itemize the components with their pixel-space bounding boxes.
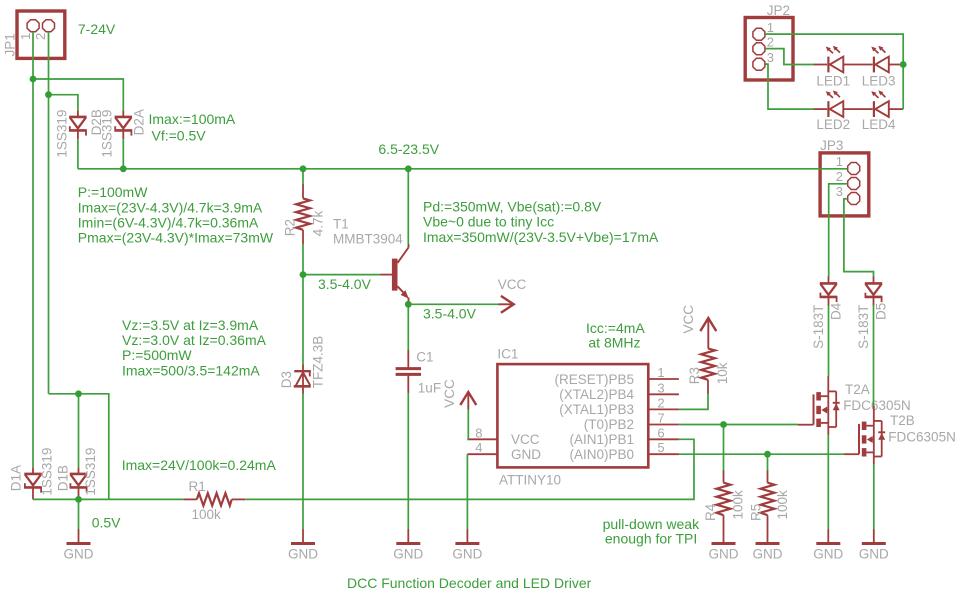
wire D1B top (78, 394, 80, 468)
svg-text:LED1: LED1 (816, 74, 850, 89)
svg-text:Vz:=3.5V at Iz=3.9mA: Vz:=3.5V at Iz=3.9mA (122, 317, 259, 333)
wire main 6.5-23.5V rail (78, 168, 847, 170)
node D2A/rail (120, 165, 127, 172)
ground (T2A) (816, 529, 840, 544)
svg-text:GND: GND (859, 547, 889, 562)
VCC arrow up (IC supply) (460, 392, 476, 410)
svg-text:MMBT3904: MMBT3904 (333, 232, 403, 247)
wire IC pin4 to GND (466, 454, 468, 529)
svg-text:GND: GND (813, 547, 843, 562)
svg-text:Pd:=350mW, Vbe(sat):=0.8V: Pd:=350mW, Vbe(sat):=0.8V (423, 199, 602, 215)
connector JP1 (17, 11, 65, 58)
svg-text:3.5-4.0V: 3.5-4.0V (318, 276, 372, 292)
resistor R1 100k (183, 493, 245, 505)
svg-text:1: 1 (657, 365, 664, 380)
IC1 pin 3 stub (648, 393, 679, 395)
IC1 pin 4 stub (467, 453, 497, 455)
wire rail to R2 (302, 169, 304, 185)
diode D4 S-183T (820, 276, 837, 306)
wire D2B bottom to rail (77, 139, 79, 169)
svg-text:(T0)PB2: (T0)PB2 (584, 417, 634, 432)
svg-text:S-183T: S-183T (811, 305, 826, 349)
svg-text:(XTAL1)PB3: (XTAL1)PB3 (559, 402, 634, 417)
svg-text:Pmax=(23V-4.3V)*Imax=73mW: Pmax=(23V-4.3V)*Imax=73mW (78, 230, 274, 246)
svg-text:R5: R5 (748, 504, 763, 521)
wire rail to T1 collector (407, 169, 409, 245)
wire R2 bottom to base node (302, 244, 304, 275)
node rail/R2 (300, 165, 307, 172)
svg-text:R1: R1 (189, 479, 206, 494)
svg-text:8: 8 (475, 425, 482, 440)
node rail/collector (405, 165, 412, 172)
node base/D3 (300, 271, 307, 278)
svg-text:Imax=500/3.5=142mA: Imax=500/3.5=142mA (122, 362, 260, 378)
LED2 (813, 90, 858, 117)
svg-text:T1: T1 (333, 216, 349, 231)
svg-text:GND: GND (452, 547, 482, 562)
IC1 pin 5 stub (648, 453, 679, 455)
node D1/GND/R1 (75, 496, 82, 503)
svg-text:FDC6305N: FDC6305N (843, 398, 911, 413)
svg-text:D1B: D1B (55, 465, 70, 491)
svg-text:3.5-4.0V: 3.5-4.0V (423, 306, 477, 322)
resistor R5 100k (761, 470, 775, 529)
JP2 pin 1 (753, 28, 765, 40)
svg-text:ATTINY10: ATTINY10 (499, 473, 561, 488)
LED3 (858, 46, 903, 73)
IC1 pin 2 stub (648, 408, 679, 410)
svg-text:GND: GND (288, 547, 318, 562)
transistor T1 MMBT3904 (380, 244, 409, 304)
svg-text:2: 2 (657, 395, 664, 410)
node JP1.1/D2A (30, 76, 37, 83)
IC1 pin 7 stub (648, 424, 679, 426)
svg-text:6: 6 (657, 425, 664, 440)
svg-text:GND: GND (709, 547, 739, 562)
svg-text:1: 1 (767, 20, 774, 35)
wire base node down to D3 (302, 275, 304, 365)
wire R5 branch (767, 454, 769, 470)
svg-text:VCC: VCC (442, 379, 457, 408)
svg-text:100k: 100k (192, 507, 222, 522)
diode D2A 1SS319 (115, 110, 132, 139)
svg-text:LED3: LED3 (862, 74, 896, 89)
svg-text:1uF: 1uF (418, 380, 441, 395)
VCC arrow right (emitter rail) (498, 296, 514, 313)
svg-text:VCC: VCC (511, 432, 540, 447)
node JP1.2/D2B (45, 91, 52, 98)
svg-text:FDC6305N: FDC6305N (888, 429, 956, 444)
svg-text:(AIN0)PB0: (AIN0)PB0 (569, 447, 634, 462)
connector JP2 (745, 18, 793, 81)
svg-text:JP1: JP1 (3, 33, 18, 56)
svg-text:S-183T: S-183T (856, 305, 871, 349)
transistor T2B FDC6305N (844, 406, 885, 465)
resistor R2 4.7k (296, 184, 310, 244)
wire D5 bottom to T2B drain (873, 305, 875, 406)
node PB0/R5 (764, 451, 771, 458)
wire JP2 pin3 to LED2 (765, 64, 814, 109)
svg-text:1: 1 (18, 33, 33, 40)
svg-text:D3: D3 (279, 371, 294, 388)
ground (R4) (712, 529, 736, 544)
svg-text:GND: GND (753, 547, 783, 562)
wire D3 bottom to GND (302, 394, 304, 530)
svg-text:(AIN1)PB1: (AIN1)PB1 (569, 432, 634, 447)
svg-text:R2: R2 (282, 219, 297, 236)
svg-text:1SS319: 1SS319 (39, 448, 54, 496)
svg-text:Imax=(23V-4.3V)/4.7k=3.9mA: Imax=(23V-4.3V)/4.7k=3.9mA (78, 199, 263, 215)
svg-text:GND: GND (511, 447, 541, 462)
zener diode D3 TFZ4.3B (294, 364, 311, 394)
wire JP2 pin2 to LED1 (765, 49, 814, 65)
svg-text:3: 3 (767, 50, 774, 65)
JP1 pin 1 (27, 20, 39, 32)
diode D5 S-183T (865, 276, 882, 306)
svg-text:Imax=24V/100k=0.24mA: Imax=24V/100k=0.24mA (122, 457, 277, 473)
wire D1 bottoms to R1 (33, 498, 183, 500)
ground (D1) (67, 529, 91, 544)
svg-text:2: 2 (836, 169, 843, 184)
wire base node to T1 base (303, 274, 381, 276)
wire lower-left horizontal to x108 (49, 394, 109, 500)
transistor T2A FDC6305N (798, 376, 840, 435)
wire D1 junction to GND (78, 499, 80, 529)
svg-text:T2B: T2B (890, 413, 915, 428)
JP2 pin 3 (753, 58, 765, 70)
wire IC pin2 to R3 (679, 394, 708, 410)
wire D4 bottom to T2A drain (828, 305, 830, 376)
diode D1A 1SS319 (24, 467, 41, 499)
svg-text:10k: 10k (715, 362, 730, 384)
wire JP2 pin1 to LED right rail (765, 34, 903, 109)
svg-text:LED4: LED4 (862, 117, 896, 132)
wire VCC arrow to IC pin8 (467, 409, 469, 439)
svg-text:P:=500mW: P:=500mW (122, 347, 192, 363)
svg-text:Vz:=3.0V at Iz=0.36mA: Vz:=3.0V at Iz=0.36mA (122, 332, 267, 348)
ground (C1) (396, 529, 420, 544)
svg-text:P:=100mW: P:=100mW (78, 184, 148, 200)
svg-text:D2A: D2A (132, 109, 147, 135)
JP2 pin 2 (753, 43, 765, 55)
IC1 pin 6 stub (648, 438, 679, 440)
svg-text:JP2: JP2 (767, 3, 790, 18)
svg-text:C1: C1 (416, 350, 433, 365)
svg-text:3: 3 (657, 380, 664, 395)
svg-text:D5: D5 (874, 303, 889, 320)
IC1 pin 1 stub (648, 378, 679, 380)
svg-text:1SS319: 1SS319 (55, 110, 70, 158)
svg-text:1: 1 (836, 154, 843, 169)
svg-text:D4: D4 (829, 302, 844, 320)
ground (R5) (756, 529, 780, 544)
svg-text:7-24V: 7-24V (78, 21, 116, 37)
wire emitter node to VCC arrow (408, 303, 498, 305)
ground (T2B) (862, 529, 886, 544)
svg-text:D1A: D1A (9, 465, 24, 491)
svg-text:2: 2 (767, 34, 774, 49)
wire JP3 pin1 to rail (846, 168, 847, 170)
svg-text:2: 2 (33, 33, 48, 40)
svg-text:Imin=(6V-4.3V)/4.7k=0.36mA: Imin=(6V-4.3V)/4.7k=0.36mA (78, 214, 259, 230)
wire node to D2B branch (49, 95, 78, 111)
wire C1 bottom to GND (407, 393, 409, 530)
wire IC pin5 to T2B gate (679, 453, 844, 455)
LED1 (813, 46, 858, 73)
svg-text:(RESET)PB5: (RESET)PB5 (554, 372, 634, 387)
svg-text:1SS319: 1SS319 (100, 110, 115, 158)
svg-text:TFZ4.3B: TFZ4.3B (311, 336, 326, 389)
wire R1 right to PB1 (245, 439, 694, 499)
svg-text:100k: 100k (775, 490, 790, 520)
svg-text:4: 4 (475, 440, 482, 455)
svg-text:VCC: VCC (498, 277, 527, 292)
wire emitter node to C1 (407, 304, 409, 350)
wire IC pin7 to T2A gate (679, 424, 798, 426)
svg-text:R3: R3 (687, 367, 702, 384)
svg-text:GND: GND (393, 547, 423, 562)
svg-text:enough for TPI: enough for TPI (605, 531, 697, 547)
LED4 (858, 90, 903, 117)
diode D2B 1SS319 (69, 110, 86, 139)
svg-text:4.7k: 4.7k (310, 210, 325, 236)
JP3 pin 3 (848, 193, 860, 205)
svg-text:(XTAL2)PB4: (XTAL2)PB4 (559, 387, 634, 402)
VCC arrow up (R3 pull-up) (700, 318, 716, 348)
ground (D3) (291, 529, 315, 544)
svg-text:6.5-23.5V: 6.5-23.5V (378, 141, 439, 157)
node D1B top (75, 390, 82, 397)
svg-text:Imax:=100mA: Imax:=100mA (149, 111, 236, 127)
node PB2/R4 (720, 421, 727, 428)
svg-text:Imax=350mW/(23V-3.5V+Vbe)=17mA: Imax=350mW/(23V-3.5V+Vbe)=17mA (423, 229, 659, 245)
wire T2A source to GND (827, 435, 829, 530)
svg-text:3: 3 (836, 184, 843, 199)
JP1 pin 2 (43, 20, 55, 32)
wire node to D2A branch (33, 79, 123, 110)
wire JP3 pin3 to D5 (844, 199, 874, 277)
svg-text:7: 7 (657, 411, 664, 426)
resistor R4 100k (717, 470, 731, 529)
svg-text:Vf:=0.5V: Vf:=0.5V (152, 128, 207, 144)
IC U1 ATTINY10 (467, 364, 679, 467)
svg-text:100k: 100k (730, 490, 745, 520)
svg-text:LED2: LED2 (816, 117, 850, 132)
svg-text:JP3: JP3 (820, 138, 843, 153)
JP3 pin 2 (848, 178, 860, 190)
wire JP1 pin2 down (48, 32, 50, 394)
svg-text:IC1: IC1 (497, 346, 518, 361)
connector JP3 (820, 153, 869, 216)
JP3 pin 1 (848, 163, 860, 175)
IC1 pin 8 stub (467, 438, 497, 440)
svg-text:R4: R4 (703, 503, 718, 521)
diode D1B 1SS319 (70, 467, 87, 499)
svg-text:VCC: VCC (681, 305, 696, 334)
wire R4 branch (723, 425, 725, 471)
svg-text:1SS319: 1SS319 (83, 448, 98, 496)
capacitor C1 1uF (396, 350, 421, 393)
wire D2A bottom (122, 139, 124, 169)
node emitter/VCC (405, 301, 412, 308)
svg-text:Vbe~0 due to tiny Icc: Vbe~0 due to tiny Icc (423, 214, 554, 230)
resistor R3 10k (701, 349, 715, 395)
svg-text:0.5V: 0.5V (92, 515, 121, 531)
wire JP1 pin1 down to D1A (32, 32, 34, 468)
ground (IC1) (455, 529, 479, 544)
node LED3/JP2.1 (900, 61, 907, 68)
svg-text:5: 5 (657, 440, 664, 455)
wire T2B source to GND (873, 464, 875, 529)
svg-text:DCC Function Decoder and LED D: DCC Function Decoder and LED Driver (347, 575, 592, 591)
wire JP3 pin2 to D4 (829, 184, 848, 277)
svg-text:GND: GND (64, 547, 94, 562)
svg-text:at 8MHz: at 8MHz (588, 335, 640, 351)
svg-text:T2A: T2A (845, 382, 870, 397)
